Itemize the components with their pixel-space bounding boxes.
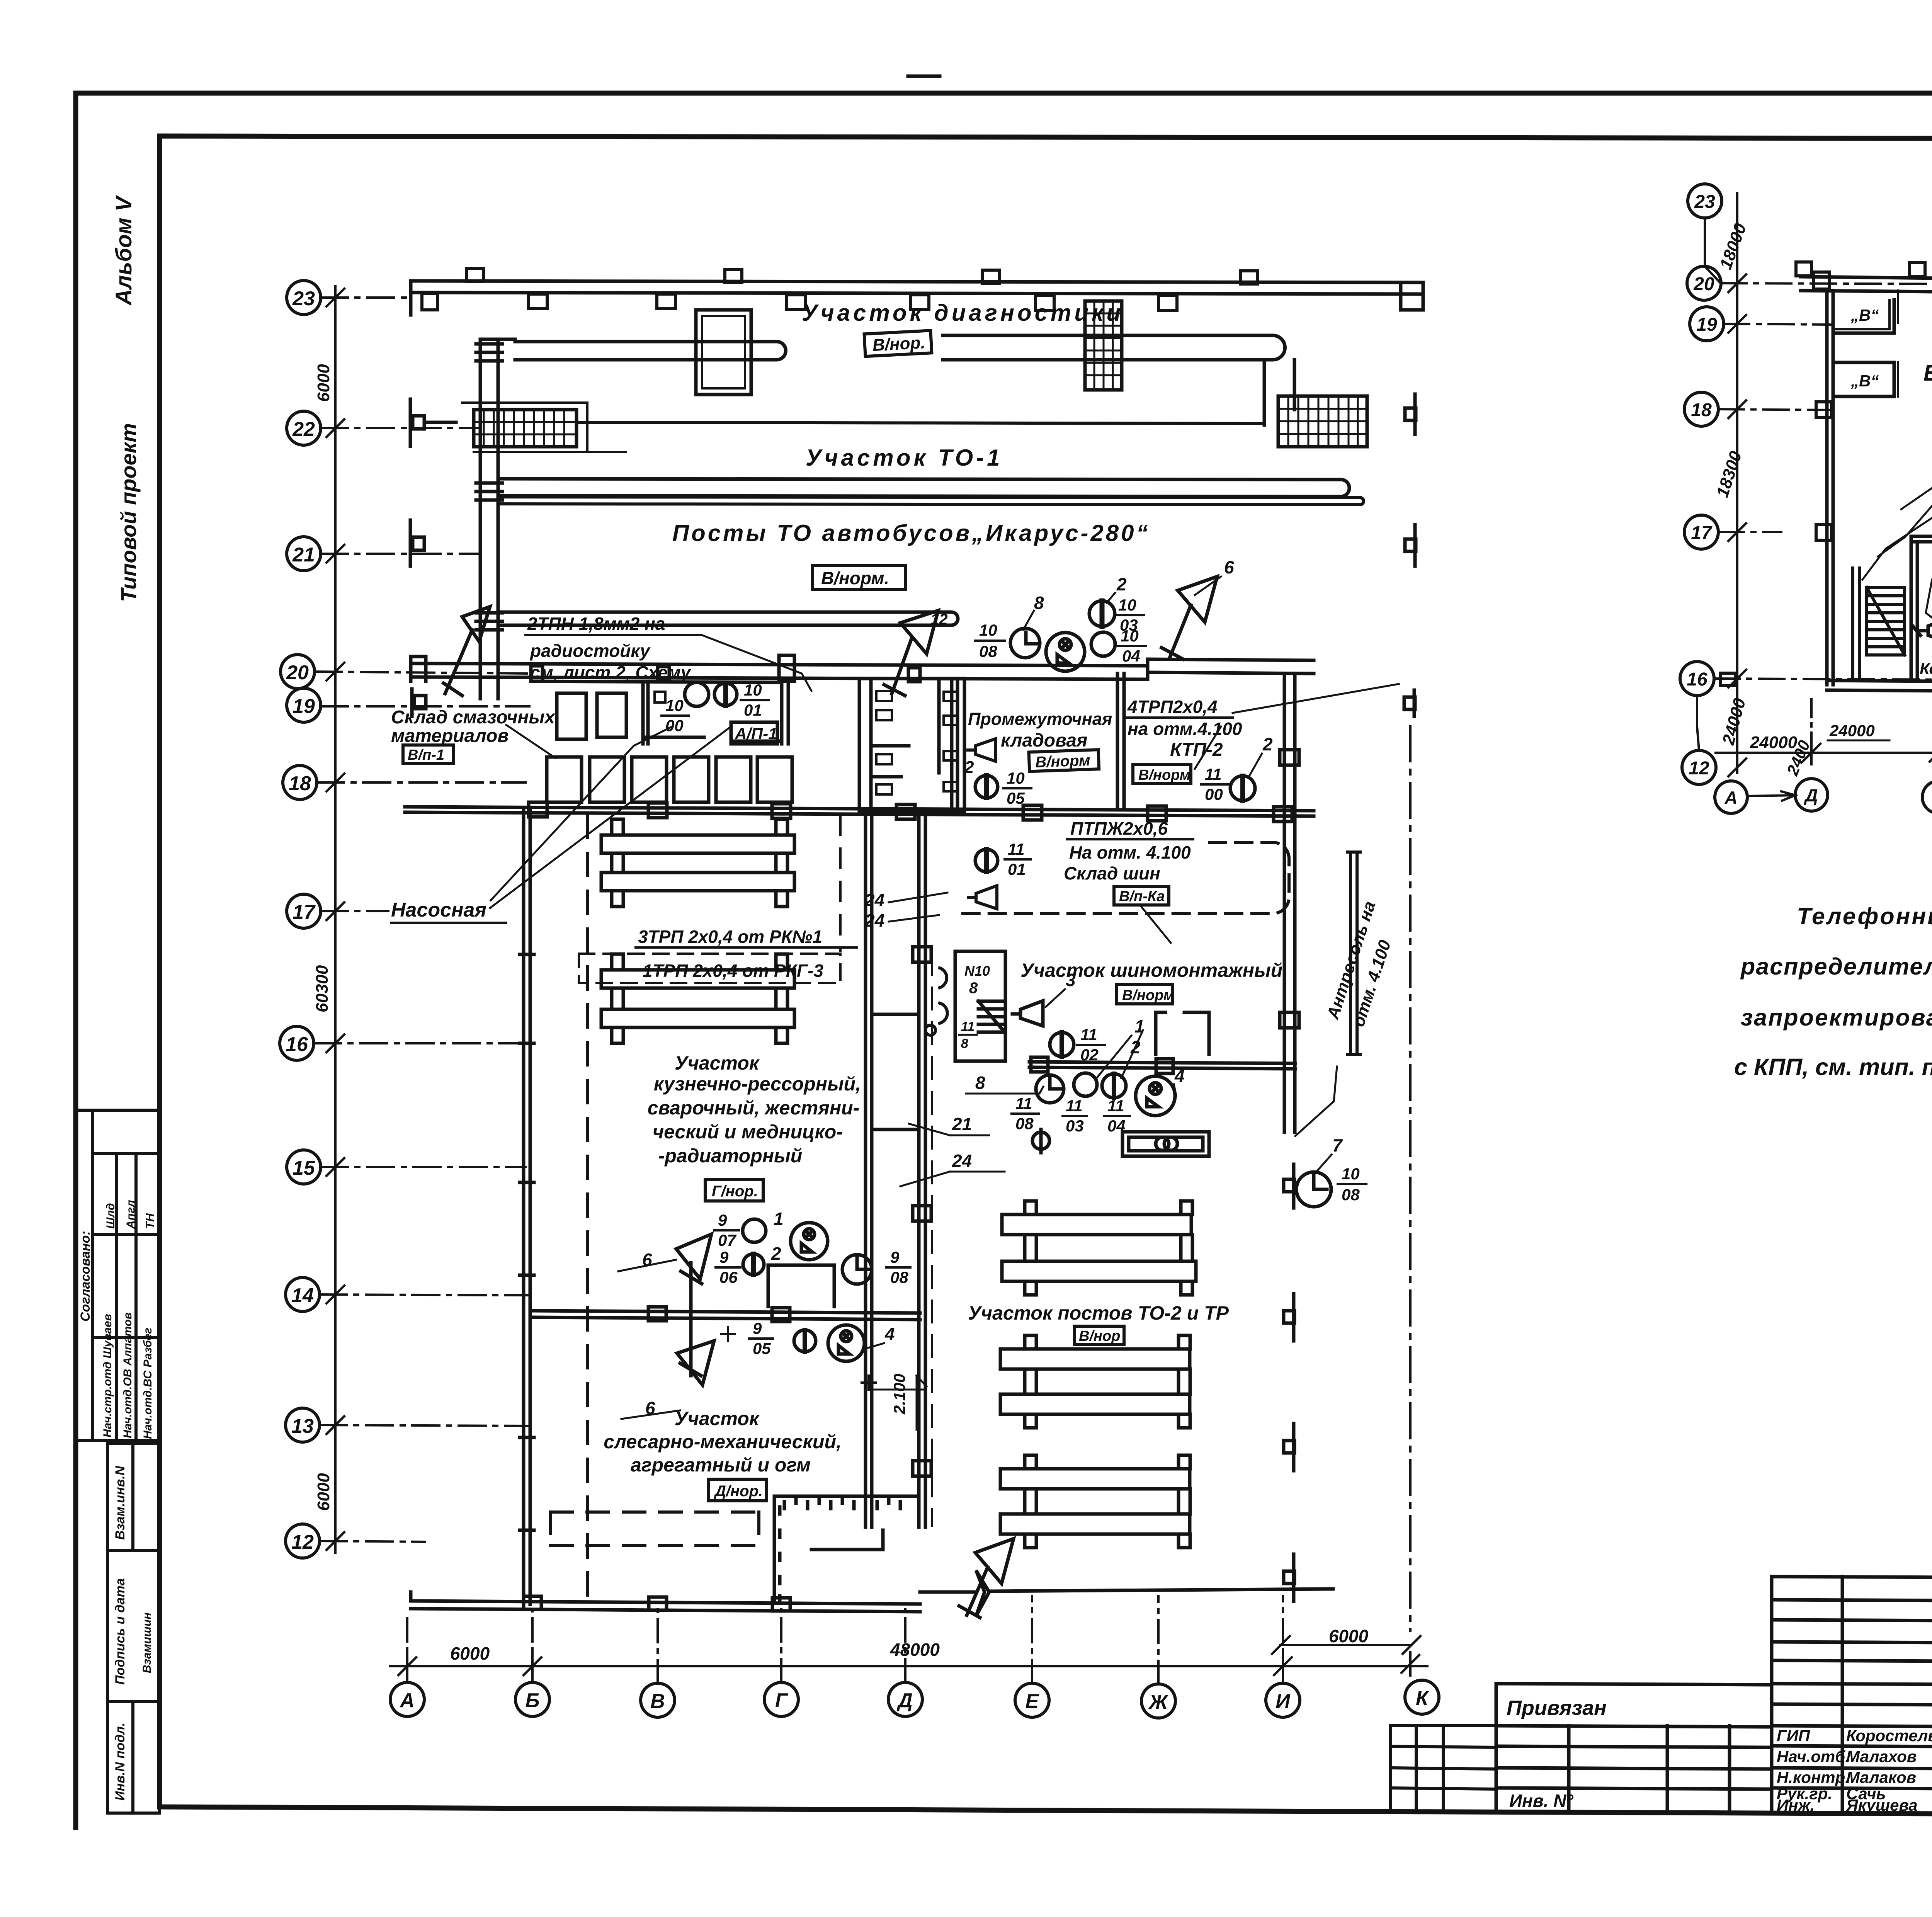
svg-text:6000: 6000	[314, 364, 333, 402]
column tabs on top wall	[422, 269, 1257, 310]
central corridor wall	[866, 811, 931, 1527]
svg-text:11: 11	[1008, 840, 1025, 858]
svg-text:Нач.стр.отд Шуваев: Нач.стр.отд Шуваев	[101, 1314, 114, 1437]
svg-text:„В“: „В“	[1850, 372, 1879, 390]
svg-text:4ТРП2х0,4: 4ТРП2х0,4	[1127, 697, 1218, 717]
cross wall row 18	[405, 802, 1314, 822]
svg-text:8: 8	[975, 1073, 985, 1093]
svg-text:КТП-2: КТП-2	[1170, 740, 1223, 760]
svg-text:14: 14	[291, 1284, 314, 1307]
I axis columns lower	[1284, 1294, 1294, 1601]
svg-text:3ТРП 2х0,4 от РК№1: 3ТРП 2х0,4 от РК№1	[638, 927, 822, 947]
svg-text:16: 16	[286, 1033, 308, 1056]
svg-text:11: 11	[1107, 1097, 1124, 1115]
svg-text:слесарно-механический,: слесарно-механический,	[604, 1431, 842, 1453]
racks row 2	[547, 757, 792, 802]
svg-text:04: 04	[1122, 647, 1140, 665]
inspection pit 1	[515, 342, 786, 360]
svg-text:23: 23	[292, 287, 315, 310]
benches lower right group3	[1000, 1455, 1190, 1548]
svg-text:А: А	[1724, 788, 1737, 808]
svg-text:Инв.N подл.: Инв.N подл.	[113, 1723, 128, 1801]
speaker triangle B	[884, 611, 938, 696]
left wall of TO-1 hall	[476, 339, 515, 699]
central tall table	[1772, 1577, 1932, 1814]
svg-text:2: 2	[1116, 574, 1127, 594]
fraction N/01 circle	[975, 849, 998, 872]
svg-text:24000: 24000	[1750, 733, 1798, 752]
diagnostics stand	[696, 310, 751, 395]
svg-text:Привязан: Привязан	[1507, 1696, 1607, 1720]
svg-text:К: К	[1416, 1687, 1429, 1709]
F symbol	[1032, 1129, 1049, 1153]
svg-text:19: 19	[293, 695, 315, 718]
svg-text:Промежуточная: Промежуточная	[968, 709, 1112, 729]
I axis wall	[1280, 676, 1299, 1132]
svg-text:Альбом V: Альбом V	[111, 195, 136, 306]
svg-text:00: 00	[665, 716, 684, 735]
svg-text:Д: Д	[1803, 785, 1818, 805]
svg-text:Склад шин: Склад шин	[1064, 863, 1160, 883]
top wall of diagnostics hall	[411, 281, 1423, 315]
svg-text:1: 1	[1134, 1016, 1145, 1036]
svg-text:06: 06	[719, 1268, 738, 1286]
svg-text:10: 10	[744, 681, 762, 699]
inspection pit 2	[943, 335, 1285, 360]
svg-text:Малаков: Малаков	[1846, 1768, 1916, 1786]
svg-text:агрегатный и огм: агрегатный и огм	[631, 1454, 811, 1476]
svg-text:Участок шиномонтажный: Участок шиномонтажный	[1020, 959, 1282, 981]
svg-text:ТН: ТН	[144, 1213, 156, 1229]
vertical dimension line left	[327, 286, 344, 1553]
benches middle-left group1	[601, 819, 794, 907]
bottom dim line	[1716, 699, 1932, 764]
svg-text:ческий и медницко-: ческий и медницко-	[653, 1121, 843, 1143]
triangle with leader 3	[1012, 1001, 1043, 1026]
corridor room partitions	[872, 1014, 919, 1129]
svg-text:19: 19	[1696, 315, 1717, 335]
svg-text:ПТПЖ2х0,6: ПТПЖ2х0,6	[1070, 818, 1168, 839]
grating mid-right	[1278, 396, 1367, 447]
svg-text:20: 20	[286, 662, 309, 684]
svg-text:Участок ТО-1: Участок ТО-1	[806, 445, 1003, 471]
grating stand at D axis	[1085, 301, 1122, 390]
triangle bottom	[959, 1539, 1014, 1618]
left wall axis B lower	[520, 811, 534, 1604]
svg-text:Склад смазочных: Склад смазочных	[391, 707, 556, 728]
svg-text:Е: Е	[1026, 1690, 1039, 1713]
benches middle-left group2	[601, 954, 794, 1043]
svg-text:24000: 24000	[1829, 721, 1875, 740]
vent chamber building	[1801, 277, 1932, 699]
svg-text:Г: Г	[775, 1689, 788, 1712]
svg-text:Д/нор.: Д/нор.	[714, 1483, 763, 1500]
svg-text:48000: 48000	[890, 1640, 940, 1660]
svg-text:4: 4	[884, 1324, 895, 1344]
svg-text:20: 20	[1693, 274, 1714, 294]
svg-text:8: 8	[1034, 593, 1044, 613]
svg-text:10: 10	[665, 696, 684, 714]
svg-text:В/норм: В/норм	[1138, 767, 1190, 783]
svg-text:2: 2	[1262, 734, 1273, 754]
speaker small	[968, 739, 995, 761]
svg-text:21: 21	[952, 1114, 972, 1134]
LEFTMARGIN	[76, 195, 160, 1813]
corridor dashdot	[931, 953, 933, 1526]
svg-text:Участок диагностики: Участок диагностики	[802, 300, 1124, 326]
intermediate storeroom walls	[952, 674, 1124, 811]
lower symbols cluster	[676, 1234, 714, 1385]
svg-text:В/норм.: В/норм.	[821, 568, 889, 588]
svg-text:А: А	[399, 1689, 415, 1712]
svg-text:10: 10	[1007, 769, 1025, 787]
svg-text:11: 11	[1066, 1097, 1083, 1115]
lower area: wall row14	[534, 1307, 920, 1322]
svg-text:кузнечно-рессорный,: кузнечно-рессорный,	[654, 1073, 861, 1095]
long rail line TO-1	[577, 422, 1264, 424]
leader from 4TRP to right wall	[1233, 684, 1399, 713]
svg-text:„В“: „В“	[1850, 306, 1879, 324]
stair well	[955, 951, 1005, 1061]
speaker triangle A	[444, 607, 490, 696]
svg-text:В/норм: В/норм	[1122, 987, 1174, 1004]
svg-text:Апгл: Апгл	[124, 1200, 137, 1229]
svg-text:16: 16	[1687, 669, 1708, 690]
svg-text:Телефонный аппарат: Телефонный аппарат	[1797, 903, 1932, 929]
racks row 1	[557, 693, 586, 739]
masters room	[1911, 536, 1932, 680]
circle 11/02	[1050, 1032, 1074, 1056]
svg-text:05: 05	[1007, 789, 1025, 807]
svg-text:8: 8	[961, 1036, 968, 1051]
svg-text:Н.контр.: Н.контр.	[1777, 1768, 1850, 1786]
bottom axis row	[390, 1680, 1439, 1718]
svg-text:Венткамера: Венткамера	[1923, 361, 1932, 386]
room A/P-1	[643, 682, 788, 744]
dim line vertical	[1697, 193, 1746, 776]
svg-text:18: 18	[289, 772, 311, 795]
svg-text:08: 08	[1342, 1186, 1360, 1204]
svg-text:Согласовано:: Согласовано:	[78, 1231, 93, 1322]
dashed workbench	[551, 1512, 759, 1546]
K axis top columns	[1404, 394, 1416, 716]
svg-text:01: 01	[744, 701, 762, 719]
svg-text:Насосная: Насосная	[391, 899, 486, 921]
svg-text:Нач.отд.ВС Разбег: Нач.отд.ВС Разбег	[141, 1328, 154, 1439]
svg-text:Якушева: Якушева	[1846, 1796, 1918, 1814]
svg-text:1: 1	[774, 1209, 784, 1229]
svg-text:6000: 6000	[450, 1643, 490, 1664]
svg-text:В/норм: В/норм	[1035, 752, 1091, 771]
svg-text:23: 23	[1694, 192, 1715, 212]
speaker triangle C	[1162, 577, 1217, 659]
svg-text:03: 03	[1066, 1117, 1084, 1135]
svg-text:6: 6	[1224, 557, 1234, 577]
antresol line	[1348, 852, 1360, 1055]
svg-text:Малахов: Малахов	[1846, 1747, 1917, 1766]
svg-text:60300: 60300	[313, 965, 332, 1012]
svg-text:Ж: Ж	[1148, 1691, 1169, 1713]
svg-text:05: 05	[753, 1339, 771, 1357]
K axis dashdot	[1409, 726, 1412, 1631]
svg-text:12: 12	[291, 1531, 314, 1553]
stairs	[1853, 568, 1905, 680]
svg-text:Посты ТО автобусов„Икарус-280“: Посты ТО автобусов„Икарус-280“	[672, 520, 1150, 546]
svg-text:7: 7	[1332, 1135, 1343, 1155]
column tabs on top wall	[1720, 262, 1932, 685]
svg-text:8: 8	[969, 980, 978, 997]
axis circles left column of vent plan	[1680, 184, 1724, 784]
svg-text:Комната мастеров: Комната мастеров	[1920, 660, 1932, 678]
svg-text:10: 10	[1342, 1165, 1360, 1183]
svg-text:01: 01	[1008, 860, 1026, 878]
kontora room	[1156, 1012, 1209, 1054]
svg-text:На отм. 4.100: На отм. 4.100	[1069, 842, 1191, 862]
svg-text:4: 4	[1174, 1066, 1185, 1086]
AXESMAIN	[280, 281, 1439, 1718]
fenced room lower right	[774, 1496, 916, 1602]
triangle in masters room	[1913, 617, 1932, 643]
svg-text:10: 10	[1121, 627, 1139, 645]
bottom wall left part	[411, 1592, 920, 1612]
main cross wall at rows 20/19	[411, 655, 1314, 682]
svg-text:на отм.4.100: на отм.4.100	[1128, 719, 1242, 739]
equipment box	[1122, 1132, 1209, 1156]
svg-text:Д: Д	[896, 1689, 913, 1712]
svg-text:Шлд: Шлд	[104, 1203, 117, 1229]
svg-text:2.100: 2.100	[890, 1374, 908, 1415]
svg-text:11: 11	[1015, 1094, 1032, 1112]
svg-text:-радиаторный: -радиаторный	[658, 1145, 803, 1167]
svg-text:24: 24	[864, 910, 884, 930]
toilets block	[859, 679, 964, 811]
vertical pit to grating	[1264, 360, 1294, 425]
svg-text:Участок постов ТО-2 и ТР: Участок постов ТО-2 и ТР	[968, 1302, 1229, 1324]
svg-text:Нач.отд.ОВ Алпатов: Нач.отд.ОВ Алпатов	[121, 1312, 134, 1438]
svg-text:Инж.: Инж.	[1777, 1796, 1815, 1814]
vertical dashed zone line	[586, 815, 589, 1604]
svg-text:с КПП, см. тип. пр.: с КПП, см. тип. пр.	[1734, 1054, 1932, 1080]
svg-text:15: 15	[293, 1157, 315, 1179]
svg-text:9: 9	[890, 1248, 900, 1266]
rooms V	[1833, 291, 1898, 396]
svg-text:18: 18	[1691, 400, 1712, 420]
svg-text:10: 10	[1118, 596, 1136, 614]
svg-text:запроектированной на отм. 60: запроектированной на отм. 6000 бытового …	[1741, 1004, 1932, 1031]
svg-text:11: 11	[961, 1019, 975, 1034]
svg-text:9: 9	[753, 1319, 762, 1337]
wall line below pit3	[500, 497, 1360, 505]
svg-text:В/нор: В/нор	[1079, 1328, 1120, 1344]
svg-text:2: 2	[964, 758, 974, 777]
lower wall of tyre area	[1029, 1057, 1295, 1073]
svg-text:ГИП: ГИП	[1777, 1726, 1810, 1745]
benches lower right group2	[1000, 1335, 1190, 1428]
svg-text:Участок: Участок	[675, 1052, 760, 1074]
svg-text:9: 9	[718, 1211, 727, 1229]
svg-text:А/П-1: А/П-1	[735, 725, 777, 743]
svg-text:В: В	[650, 1690, 665, 1713]
svg-text:N10: N10	[964, 963, 990, 979]
small table far left	[1390, 1726, 1496, 1812]
svg-text:И: И	[1276, 1690, 1291, 1713]
local dim 6000 bottom right	[1280, 1644, 1411, 1646]
svg-text:Участок: Участок	[675, 1408, 760, 1429]
dashdot axis lines	[1714, 283, 1932, 681]
svg-text:сварочный, жестяни-: сварочный, жестяни-	[648, 1097, 859, 1119]
svg-text:11: 11	[1080, 1026, 1097, 1044]
svg-text:материалов: материалов	[391, 726, 509, 746]
svg-text:00: 00	[1205, 785, 1223, 803]
privyazan box	[1496, 1684, 1772, 1813]
svg-text:В/нор.: В/нор.	[872, 333, 926, 355]
svg-text:радиостойку: радиостойку	[529, 641, 651, 661]
benches lower right group1	[1002, 1201, 1196, 1295]
bottom circles of plan2	[1715, 775, 1932, 813]
svg-text:Б: Б	[526, 1689, 540, 1712]
wall speakers	[925, 968, 947, 1035]
pit 3 long	[500, 479, 1349, 497]
svg-text:Подпись и дата: Подпись и дата	[113, 1578, 128, 1685]
svg-text:1ТРП 2х0,4 от РКГ-3: 1ТРП 2х0,4 от РКГ-3	[643, 961, 823, 981]
signature rows	[1777, 1726, 1932, 1814]
svg-text:22: 22	[292, 418, 315, 441]
svg-text:08: 08	[979, 642, 997, 660]
clock 7	[1296, 1172, 1331, 1207]
column T marks on axis A	[410, 399, 456, 716]
svg-text:кладовая: кладовая	[1001, 730, 1087, 751]
bottom wall right part with break	[920, 1570, 1333, 1616]
svg-text:В/п-Ка: В/п-Ка	[1119, 888, 1165, 905]
svg-text:17: 17	[1691, 523, 1713, 543]
svg-text:Типовой проект: Типовой проект	[116, 423, 141, 602]
svg-text:08: 08	[1015, 1114, 1034, 1133]
svg-text:3: 3	[1066, 970, 1076, 990]
svg-text:распределительной телефонной: распределительной телефонной коробки ГАТ…	[1740, 953, 1932, 980]
top register mark	[908, 75, 940, 78]
svg-text:13: 13	[291, 1415, 314, 1437]
svg-text:6000: 6000	[314, 1473, 333, 1511]
svg-text:Взамишин: Взамишин	[141, 1613, 153, 1673]
svg-text:Г/нор.: Г/нор.	[712, 1183, 758, 1200]
svg-text:2: 2	[771, 1243, 781, 1264]
svg-text:Инв. N°: Инв. N°	[1509, 1791, 1573, 1811]
svg-text:24: 24	[864, 890, 884, 910]
stamp table 1 (Согласовано)	[76, 1110, 160, 1441]
svg-text:10: 10	[979, 621, 997, 639]
svg-text:Взам.инв.N: Взам.инв.N	[113, 1465, 128, 1540]
svg-text:12: 12	[1689, 758, 1709, 779]
svg-text:07: 07	[718, 1231, 736, 1249]
stair grating top-left	[462, 403, 626, 452]
svg-text:17: 17	[293, 901, 316, 924]
svg-text:24: 24	[952, 1151, 972, 1171]
svg-text:Коростель: Коростель	[1846, 1726, 1932, 1745]
stamp table 2	[107, 1443, 160, 1813]
svg-text:В/п-1: В/п-1	[408, 747, 444, 763]
pit 4	[500, 612, 958, 625]
svg-text:9: 9	[719, 1248, 729, 1266]
svg-text:08: 08	[890, 1268, 908, 1286]
speaker small 2	[968, 886, 997, 909]
svg-text:2ТПН 1,8мм2 на: 2ТПН 1,8мм2 на	[527, 614, 665, 634]
svg-text:21: 21	[292, 544, 315, 566]
svg-text:Нач.отб.: Нач.отб.	[1777, 1747, 1850, 1766]
svg-text:6000: 6000	[1329, 1626, 1369, 1646]
svg-text:11: 11	[1205, 765, 1222, 783]
